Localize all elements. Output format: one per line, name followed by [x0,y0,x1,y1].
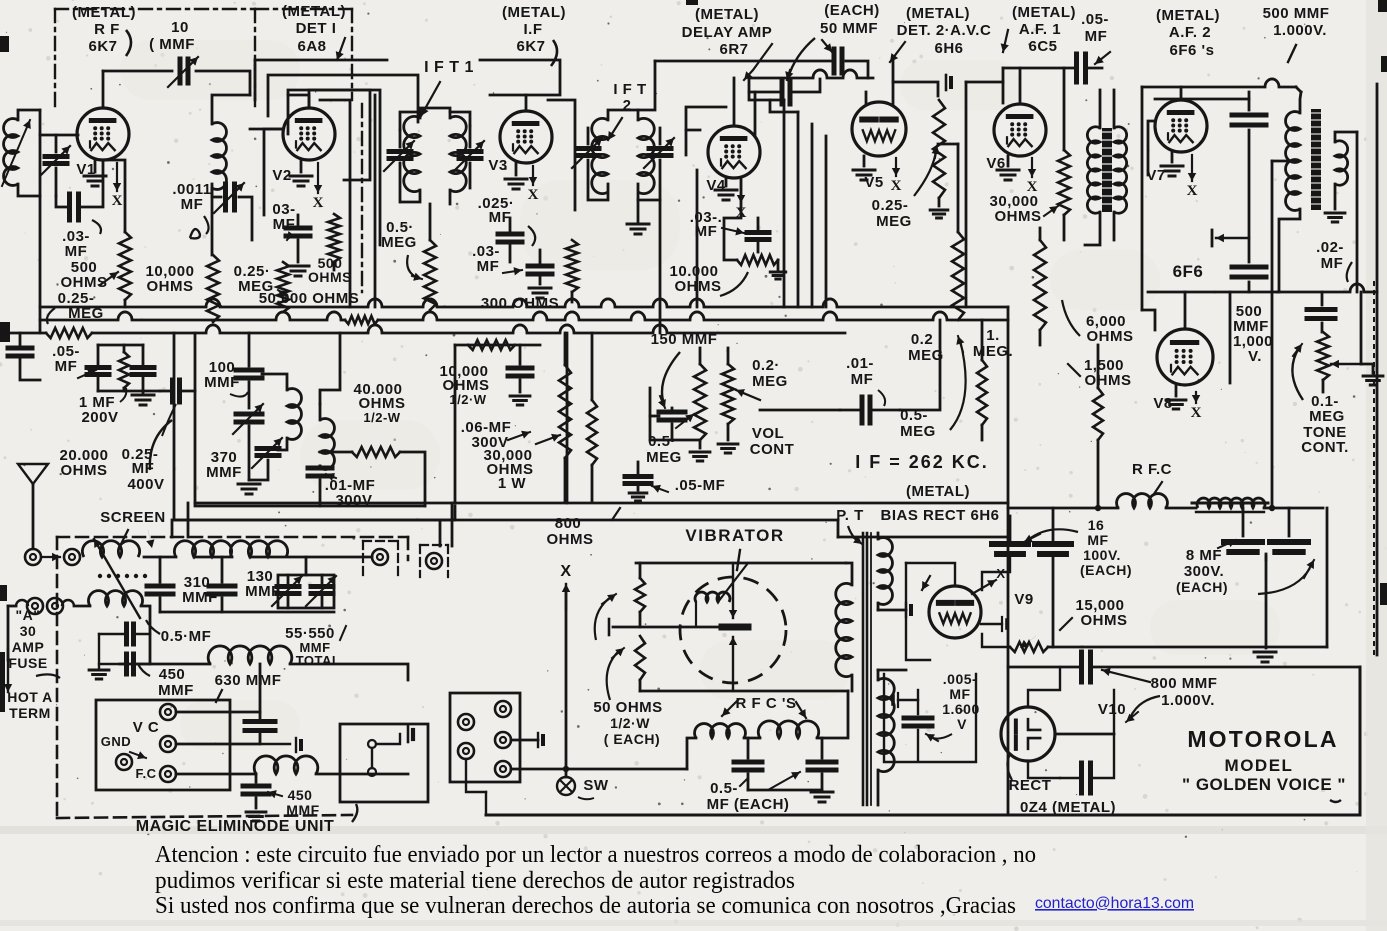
capacitor .05mf b [87,365,109,370]
arrow 500mmf top [1288,45,1296,62]
svg-text:MF: MF [65,243,88,260]
arrow 0.25meg v1 [47,308,55,324]
svg-text:X: X [560,563,571,580]
wire 05meg [699,348,702,364]
resistor 1meg [977,360,987,425]
svg-text:CONT.: CONT. [1301,439,1349,456]
svg-text:(METAL): (METAL) [282,3,346,20]
wire avc r bottom [938,198,941,206]
terminal elim right2 [426,553,442,569]
arrow af1 [1003,30,1008,52]
ground V3 [515,163,518,175]
resistor vib lower [635,636,645,680]
svg-text:R F: R F [94,21,120,38]
terminal elim left [64,549,80,565]
arrow tone wiper [1331,363,1361,365]
wire af xfmr bottom [1085,212,1100,245]
wire r bottom v4 [777,260,780,270]
terminal s2 [458,743,474,759]
arrow pt [848,526,860,542]
tube V5 diode [852,102,906,156]
svg-text:50 MMF: 50 MMF [820,20,878,37]
IFT2 winding left [592,118,608,193]
IFT2 trimmer right [649,146,671,151]
wire v5 top right link [893,82,938,96]
IFT1 winding left [404,116,420,191]
arrow 15000 [1060,618,1072,630]
terminal s4 [495,732,511,748]
terminal s1 [458,714,474,730]
scan artifact right edge tick [1378,0,1387,12]
ground V8 [1175,385,1178,396]
wire pt prim lower [851,675,854,691]
tube V3 [500,111,552,163]
svg-text:Si usted nos confirma que se v: Si usted nos confirma que se vulneran de… [155,892,1016,919]
arrow 100mmf [230,392,248,397]
oscillator coil [212,123,226,190]
wire right border [1376,84,1379,655]
elim dots [98,574,102,578]
arrow 8mf b [1258,568,1310,594]
wire v7 grid box [1148,121,1155,175]
terminal s3 [495,701,511,717]
capacitor .03MF V2 [286,226,310,231]
arrow 03mf v2 [287,236,290,240]
heater X V1 [116,163,118,191]
svg-text:MEG: MEG [908,347,944,364]
coil fc [254,756,318,774]
svg-text:300V.: 300V. [1184,563,1224,580]
avc vertical bundle [783,100,786,307]
wire IFT1 frame [420,108,450,118]
svg-text:V10: V10 [1098,701,1126,718]
svg-text:X: X [1187,183,1198,199]
svg-text:.005-: .005- [943,671,977,687]
svg-text:16: 16 [1088,517,1105,533]
wire v10 bottom [1028,761,1060,778]
heater X V7 [1191,155,1193,181]
svg-text:OHMS: OHMS [995,208,1042,225]
tube V10 [1001,707,1055,761]
wire A lead [7,606,10,660]
svg-text:X: X [313,195,324,211]
svg-text:AMP: AMP [12,639,45,655]
svg-text:MF: MF [55,358,78,375]
wire pt sec taps [878,609,906,612]
capacitor .02-MF [1307,307,1335,312]
svg-text:1.: 1. [986,327,1000,344]
capacitor 1MF 200V [132,365,154,370]
svg-text:(EACH): (EACH) [824,2,880,19]
svg-text:V5: V5 [864,174,883,191]
wire af1 rail [1003,67,1074,70]
svg-text:MF: MF [181,196,204,213]
ground 8mf [1254,651,1276,654]
capacitor vc [245,719,275,724]
wire v9 top [906,563,955,586]
RFC filter coil b core [1192,502,1268,505]
capacitor .0011 MF [212,184,221,197]
tube V4 [708,126,760,178]
svg-text:X: X [112,193,123,209]
resistor 500 ohms V1 [119,232,131,300]
svg-text:.01-: .01- [846,355,874,372]
svg-text:1/2-W: 1/2-W [363,410,400,425]
wire nest vertical b [374,95,377,307]
PT core [862,533,865,805]
wire 500mmf box sides [1229,292,1232,383]
arrow 05mf elim [146,620,160,634]
svg-text:(EACH): (EACH) [1080,562,1132,578]
rail y503 [195,502,1008,505]
arrow 03mf v4 [722,228,744,233]
bus line 3 [2,332,46,335]
heater X V3 [532,166,534,185]
capacitor 50MMF b [780,80,785,104]
wire V2 right nest1 [264,129,283,215]
svg-text:MAGIC ELIMINODE UNIT: MAGIC ELIMINODE UNIT [136,818,334,835]
wire ant top [18,110,40,120]
arrow 10000 v4 [720,272,748,296]
svg-text:TOTAL: TOTAL [296,653,341,668]
wire elim drops [171,520,174,537]
wire v4 cath [724,178,741,260]
heater X V4 [740,180,742,203]
capacitor 310MMF [147,584,173,589]
wire V3 box [548,100,575,210]
wire s4 gnd [511,739,538,742]
svg-text:V.: V. [1248,348,1262,365]
svg-text:I F = 262 KC.: I F = 262 KC. [855,452,989,472]
arrow 02meg curve [950,340,966,430]
elim coil 1 [82,541,139,557]
wire osc box2 [174,333,455,520]
svg-text:6K7: 6K7 [516,38,545,55]
wire grid V1 [40,134,78,137]
wire osc coil bottom [211,188,214,255]
svg-text:MF: MF [477,258,500,275]
wire af xfmr top [1099,90,1102,128]
svg-text:MMF: MMF [158,682,194,699]
wire vol out [760,409,840,412]
svg-text:MF: MF [1085,28,1108,45]
arrow 05each [768,772,800,790]
wire ant bottom [18,184,40,196]
capacitor 450MMF lower [124,654,129,674]
wire v10 top [1028,667,1060,707]
wire elim top [144,556,176,559]
svg-text:6H6: 6H6 [934,40,963,57]
ground IFT2 [627,223,649,226]
capacitor .03MF v4 [747,230,769,235]
svg-text:0Z4 (METAL): 0Z4 (METAL) [1020,799,1116,816]
arrow 50ohms b [595,596,612,640]
PT secondary upper [878,538,892,605]
fuse symbol [8,605,16,608]
wire elim right drops [439,520,442,546]
shield can dashed box RF stage [55,8,255,10]
small gnd cap v5 [945,75,948,90]
arrow ant to box [41,556,60,558]
capacitor .03MF v3 [528,264,552,269]
arrow 025mf 400 [162,404,176,436]
wire 630 row [120,663,210,666]
wire rail2 [749,77,813,80]
svg-text:R F C 'S: R F C 'S [736,695,797,712]
PT secondary lower [878,678,894,771]
svg-text:6A8: 6A8 [297,38,326,55]
svg-text:X: X [891,178,902,194]
tube V1 [77,108,129,160]
svg-text:F.C: F.C [136,766,157,781]
arrow fuse [36,674,60,678]
wire det drop [254,60,257,100]
capacitor 370MMF [236,412,262,417]
svg-text:0.2·: 0.2· [752,357,780,374]
wire osc coils [262,374,287,390]
wire elim mid [160,611,334,614]
capacitor 100MMF [236,368,262,373]
socket plate [96,700,230,790]
svg-text:pudimos verificar si este mate: pudimos verificar si este material tiene… [155,867,795,894]
svg-text:0.5·MF: 0.5·MF [161,628,212,645]
wire cathode V1 [103,160,125,232]
tube V8 [1157,329,1213,385]
resistor volume pot [722,364,734,424]
wire v8 box [1148,291,1277,294]
vibrator coil [695,592,730,602]
svg-text:8 MF: 8 MF [1186,547,1222,564]
heater X V8 [1195,392,1197,403]
wire af2 left [1141,87,1144,310]
capacitor .05MF coupling [1074,54,1079,82]
svg-text:R F.C: R F.C [1132,461,1172,478]
svg-text:( EACH): ( EACH) [604,731,660,747]
wire sw down [485,792,487,815]
arrow 16mf [1028,529,1078,540]
capacitor .05-MF [625,474,651,479]
svg-text:V3: V3 [488,157,507,174]
svg-text:Atencion : este circuito fue e: Atencion : este circuito fue enviado por… [155,841,1036,868]
output transformer secondary [1335,141,1348,186]
junction sw [563,766,569,772]
svg-text:TERM: TERM [9,705,51,721]
arrow 01mf [326,474,336,478]
elim coil 3 [230,541,287,557]
wire mid box [455,344,540,347]
.005MF cluster [904,716,932,721]
capacitor 500MMF lower [1232,265,1266,270]
svg-text:(METAL): (METAL) [502,4,566,21]
svg-text:800: 800 [555,515,582,532]
arrow 30000 af1 [1044,206,1058,216]
arrow delay amp [744,44,772,80]
arrow 05meg ift1 [407,255,418,278]
wire tap vertical 1272 [1271,161,1274,508]
RFC filter coil b [1197,498,1265,508]
arrow .05mf top [1095,52,1110,64]
svg-text:DET I: DET I [296,20,337,37]
wire 10mmf row [103,70,172,73]
svg-text:V: V [957,716,967,732]
resistor 10000 ohms RF [207,255,219,322]
svg-text:(METAL): (METAL) [695,6,759,23]
arrow vol wiper [736,390,760,400]
capacitor .01MF 300V [308,466,332,471]
wire v5 plate right [892,61,895,105]
wire 02meg up [957,144,960,232]
svg-text:300 OHMS: 300 OHMS [481,295,559,312]
svg-text:.05-: .05- [1081,11,1109,28]
wire osc coil top [212,95,250,124]
antenna loop coil [4,119,18,186]
capacitor 130MMF [209,584,235,589]
arrow A lead [7,650,9,692]
wire af2 rail [1142,86,1265,89]
wire v6 plate [1019,68,1022,104]
svg-text:" GOLDEN VOICE ": " GOLDEN VOICE " [1182,775,1346,794]
arrow 03mf v3 [503,270,522,273]
wire nest box a [268,75,418,122]
svg-text:1.600: 1.600 [942,701,980,717]
arrow rfcs b [796,702,806,718]
terminal GND2 [116,754,132,770]
wire IFT1 left top [400,112,420,130]
shield can dashed box DET stage [255,8,352,10]
svg-text:500 MMF: 500 MMF [1263,5,1330,22]
big left curve [150,420,172,470]
dashed subbox right [363,540,398,542]
wire nest vertical e [696,170,699,307]
wire af1 box [1002,68,1005,103]
resistor 1500 [1093,388,1103,440]
svg-text:0.5·: 0.5· [648,433,676,450]
paper mottling [120,40,1280,750]
wire V2 plate box [309,90,370,180]
svg-text:200V: 200V [81,409,118,426]
capacitor 50MMF a [832,49,837,73]
arrow 1500 [1068,364,1080,376]
svg-text:MF: MF [489,209,512,226]
svg-text:( MMF: ( MMF [149,36,195,53]
ground V7 [1171,152,1174,162]
svg-text:MF: MF [1321,255,1344,272]
svg-text:450: 450 [288,787,313,803]
arrow 500ohms v1 [100,272,118,285]
relay cap [407,726,410,742]
capacitor 800MMF a [1079,652,1084,682]
wire right box edge [1359,667,1362,815]
ground speaker [1325,212,1345,215]
relay contacts [368,740,376,748]
arrow 800ohms [612,508,620,520]
lamp SW [557,777,575,795]
wire bias v9 box [906,563,930,660]
antenna symbol [18,464,48,484]
small gnd cap pt [905,603,907,617]
wire bundle top b [770,100,798,112]
svg-text:SCREEN: SCREEN [100,509,166,526]
wire tone bottom [1322,380,1325,392]
capacitor 450MMF upper [124,624,129,644]
arrow 630 [216,690,222,702]
arrow 8mf a [1218,540,1236,548]
svg-text:OHMS: OHMS [61,274,108,291]
wire 16mf drops [1009,516,1012,540]
terminal antenna [25,549,41,565]
RFC filter coil a [1117,494,1168,508]
tube V6 [994,104,1046,156]
wire det nest lines [288,95,309,108]
wire 55550 box [278,575,334,608]
junction rfc right [1269,505,1275,511]
resistor 300 ohms [566,240,578,292]
svg-text:OHMS: OHMS [1081,612,1128,629]
osc coil b [320,419,334,470]
ground 370 [238,483,260,486]
svg-text:800 MMF: 800 MMF [1151,675,1218,692]
resistor 30000 af1 [1058,150,1070,215]
svg-text:1.000V.: 1.000V. [1273,22,1327,39]
heater X V6 [1031,158,1033,177]
tube V7 [1155,100,1207,152]
AF transformer core [1102,128,1112,212]
wire primary tap [1272,160,1293,163]
resistor vib upper [635,578,645,612]
resistor 10000 v4 [737,255,778,265]
capacitor 150mmf [659,410,685,415]
small gnd cap v9 [981,623,1002,625]
svg-text:MF: MF [851,371,874,388]
arrow 05mf mid [652,486,668,492]
wire vib bottom [640,690,848,693]
svg-text:A.F. 1: A.F. 1 [1019,21,1061,38]
svg-text:1/2·W: 1/2·W [449,392,486,407]
svg-text:DET. 2·A.V.C: DET. 2·A.V.C [897,22,992,39]
arrow 800mmf [1130,696,1160,718]
wire V3 plate top [490,95,526,111]
resistor tone pot [1317,332,1329,380]
wire 150 box [650,415,659,418]
wire v4 grid box [686,107,726,155]
wire rfc mid [744,737,760,740]
arrow 50mmf b [822,40,832,52]
shield dashed vertical mid [361,104,363,292]
wire v8 left [1142,310,1155,330]
wire fc [176,773,256,776]
wire mid cluster [98,344,143,347]
svg-text:.02-: .02- [1316,239,1344,256]
capacitor .03MF V1 [56,196,66,207]
ground 450mmf [89,669,109,672]
resistor 30000 1w [559,365,571,458]
capacitor 800MMF b [1079,763,1084,793]
svg-text:CONT: CONT [750,441,795,458]
arrow 025meg v2 [278,290,286,296]
arrow 50mmf a [788,38,815,78]
svg-text:6R7: 6R7 [719,41,748,58]
eliminode dashed box [57,536,408,539]
svg-text:V C: V C [133,719,160,736]
wire s5 out [511,768,687,771]
svg-text:(METAL): (METAL) [1012,4,1076,21]
wire 8mf down [1265,556,1268,648]
plus mark [1216,237,1249,239]
resistor 15000 [1010,642,1048,652]
wire IFT2 frame [608,110,638,120]
wire rail y292 right [1277,291,1350,294]
IFT1 trimmer left [389,149,411,154]
